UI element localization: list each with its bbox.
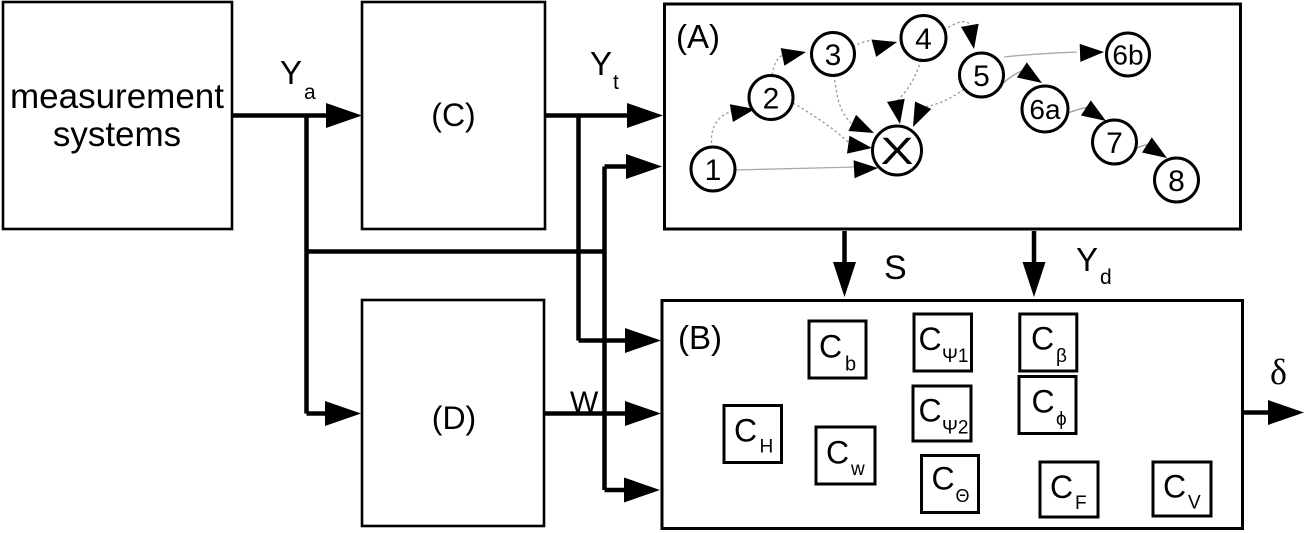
svg-text:C: C	[919, 393, 942, 429]
wire 5 to 6b	[1004, 52, 1077, 57]
svg-text:Θ: Θ	[956, 486, 970, 506]
wire 1 to 2	[711, 110, 736, 148]
node circle 1	[691, 147, 735, 191]
arrowhead into 2	[730, 100, 757, 122]
coefficient box Ctheta	[922, 456, 979, 513]
node circle X	[873, 126, 922, 175]
wire branch vertical	[602, 167, 607, 491]
svg-text:W: W	[570, 386, 599, 419]
arrowhead into 6b	[1080, 43, 1105, 62]
coefficient box Cb	[809, 321, 866, 378]
svg-text:C: C	[734, 413, 757, 449]
coefficient box CH	[724, 406, 782, 463]
box measurement systems	[3, 2, 232, 229]
svg-text:F: F	[1075, 493, 1087, 514]
svg-text:b: b	[845, 354, 856, 376]
wire 6a to 7	[1068, 107, 1088, 113]
wire into A second arrow	[605, 164, 628, 169]
arrowhead into X from 4	[887, 99, 909, 126]
box A	[665, 4, 1241, 229]
arrowhead W into B	[625, 401, 661, 426]
svg-text:(D): (D)	[432, 400, 476, 436]
wire 4 to 5	[944, 22, 971, 30]
svg-text:5: 5	[973, 60, 990, 93]
svg-text:C: C	[1163, 469, 1186, 505]
svg-text:measurement: measurement	[10, 77, 224, 116]
node circle 6b	[1107, 33, 1150, 76]
svg-text:w: w	[850, 459, 865, 480]
box C	[362, 2, 545, 229]
wire 3 to 4	[853, 41, 874, 47]
wire 3 to X	[834, 75, 851, 123]
svg-text:systems: systems	[53, 115, 181, 154]
svg-text:t: t	[613, 71, 619, 94]
svg-text:C: C	[932, 461, 955, 497]
coefficient box Cpsi2	[913, 386, 971, 441]
svg-text:(C): (C)	[431, 97, 475, 133]
svg-text:S: S	[884, 249, 907, 287]
svg-text:β: β	[1056, 346, 1067, 367]
arrowhead Ya into C	[326, 103, 362, 128]
arrowhead into D	[325, 401, 361, 426]
arrowhead into B bottom	[624, 478, 660, 503]
arrowhead into X from 3	[848, 115, 877, 141]
arrowhead into 7	[1081, 100, 1111, 128]
arrowhead into 5	[961, 24, 983, 51]
svg-text:Ψ2: Ψ2	[942, 418, 968, 439]
svg-text:3: 3	[825, 39, 842, 72]
coefficient box CV	[1153, 462, 1211, 516]
svg-text:C: C	[1032, 384, 1055, 420]
svg-text:7: 7	[1106, 127, 1123, 160]
label Yd	[1076, 241, 1112, 289]
wire delta output	[1244, 410, 1270, 415]
coefficient box CF	[1040, 462, 1098, 517]
coefficient box Cphi	[1019, 377, 1076, 434]
graph arrowheads in block A	[730, 24, 1172, 178]
node circle 5	[960, 53, 1004, 97]
wire Yt junction vertical	[576, 116, 581, 341]
wire Yt horizontal	[546, 113, 628, 118]
svg-text:H: H	[760, 437, 774, 458]
svg-text:d: d	[1100, 266, 1112, 289]
node circle 7	[1093, 120, 1137, 164]
svg-text:2: 2	[763, 83, 780, 116]
svg-text:a: a	[304, 81, 316, 104]
svg-text:8: 8	[1168, 165, 1185, 198]
wire Yd arrow	[1032, 231, 1037, 263]
wire into D	[307, 411, 328, 416]
coefficient box Cpsi1	[914, 314, 972, 371]
svg-text:(B): (B)	[678, 319, 722, 356]
svg-text:Y: Y	[1076, 241, 1098, 278]
wire 2 to 3	[772, 55, 783, 75]
box B	[662, 301, 1243, 529]
wire 5 to 6a	[999, 71, 1022, 87]
svg-text:C: C	[1031, 321, 1054, 357]
wire into B top arrow	[579, 338, 627, 343]
node circle 8	[1155, 158, 1199, 202]
arrowhead into X from 1	[854, 159, 879, 178]
svg-text:6b: 6b	[1112, 40, 1143, 71]
svg-text:(A): (A)	[676, 18, 720, 55]
coefficient box Cw	[816, 427, 875, 484]
wire Ya branch horizontal	[307, 249, 605, 254]
wire Ya junction vertical	[304, 116, 309, 414]
svg-text:Ψ1: Ψ1	[942, 346, 968, 367]
arrowhead into X from 2	[847, 136, 873, 157]
label Yt	[590, 45, 619, 94]
arrowhead delta output	[1268, 400, 1304, 425]
svg-text:Y: Y	[590, 45, 612, 82]
svg-text:1: 1	[705, 154, 722, 187]
svg-text:6a: 6a	[1029, 94, 1061, 125]
wire S arrow	[842, 231, 847, 263]
arrowhead Yd into B	[1023, 262, 1046, 297]
svg-text:C: C	[826, 435, 849, 471]
arrowhead Yt into A	[627, 103, 663, 128]
box D	[362, 300, 544, 526]
arrowhead into A second	[626, 154, 662, 179]
arrowhead S into B	[833, 262, 856, 297]
node circle 3	[812, 33, 855, 76]
svg-text:C: C	[819, 329, 842, 365]
arrowhead into 6a	[1017, 62, 1047, 90]
svg-text:ϕ: ϕ	[1056, 409, 1067, 430]
wire 7 to 8	[1135, 145, 1149, 149]
arrowhead into X from 5	[905, 101, 931, 130]
wire Ya horizontal	[233, 113, 327, 118]
label Ya	[280, 54, 316, 104]
svg-text:C: C	[919, 321, 942, 357]
svg-text:4: 4	[915, 23, 932, 56]
svg-text:C: C	[1050, 469, 1073, 505]
svg-text:δ: δ	[1270, 352, 1287, 392]
wire into B bottom arrow	[605, 488, 626, 493]
arrowhead into 3	[781, 43, 808, 66]
graph edges in block A (thin gray, behind circles)	[711, 22, 1149, 170]
svg-text:V: V	[1188, 493, 1201, 514]
wire 1 to X	[735, 167, 856, 170]
wire 4 to X	[896, 60, 921, 102]
wire 5 to X	[922, 89, 964, 107]
arrowhead into 8	[1142, 137, 1172, 165]
coefficient box Cbeta	[1020, 314, 1077, 371]
node circle 4	[901, 16, 946, 61]
svg-text:Y: Y	[280, 54, 302, 91]
node circle 6a	[1022, 86, 1068, 132]
arrowhead into B top	[625, 328, 661, 353]
arrowhead into 4	[871, 33, 899, 57]
node circle 2	[749, 76, 793, 120]
svg-text:X: X	[881, 131, 914, 173]
wire W	[545, 411, 626, 416]
wire 2 to X	[793, 103, 849, 143]
